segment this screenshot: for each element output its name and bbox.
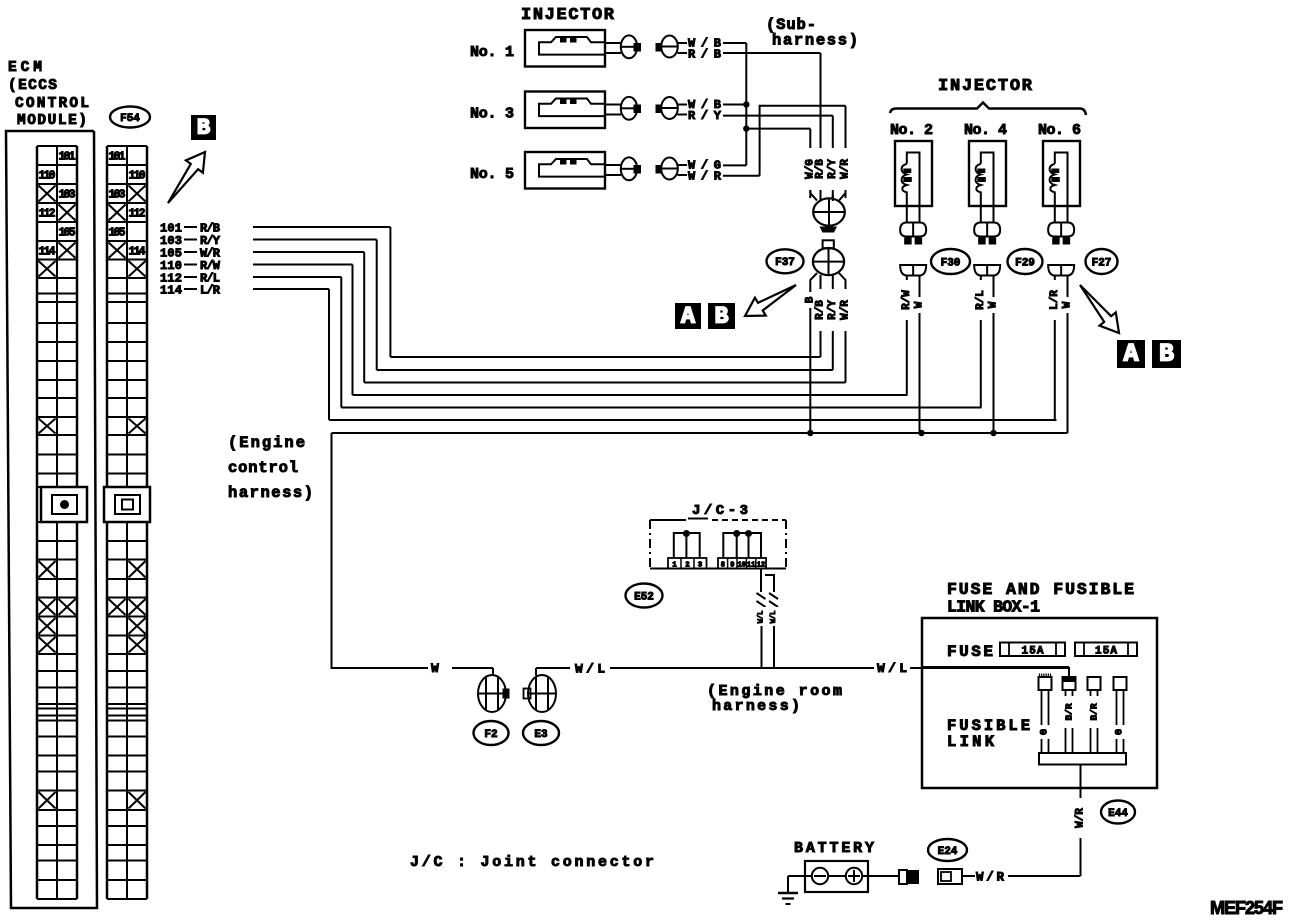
svg-text:MEF254F: MEF254F xyxy=(1210,898,1283,918)
svg-text:R/B: R/B xyxy=(815,300,827,320)
svg-text:101: 101 xyxy=(59,151,76,164)
svg-text:LINK BOX-1: LINK BOX-1 xyxy=(947,598,1040,617)
svg-text:2: 2 xyxy=(685,562,690,570)
svg-text:R/B: R/B xyxy=(688,48,721,62)
svg-text:FUSE AND FUSIBLE: FUSE AND FUSIBLE xyxy=(947,580,1134,599)
svg-text:110: 110 xyxy=(129,170,146,183)
svg-text:J/C : Joint connector: J/C : Joint connector xyxy=(410,854,654,871)
svg-text:W: W xyxy=(431,661,439,676)
svg-text:3: 3 xyxy=(698,562,703,570)
svg-text:R/Y: R/Y xyxy=(688,109,722,123)
svg-text:9: 9 xyxy=(730,562,734,570)
svg-text:(ECCS: (ECCS xyxy=(8,78,57,94)
svg-text:W: W xyxy=(1062,301,1074,308)
svg-text:L/R: L/R xyxy=(200,284,221,298)
svg-text:12: 12 xyxy=(757,562,765,570)
svg-text:BATTERY: BATTERY xyxy=(794,840,874,857)
svg-text:114: 114 xyxy=(39,245,56,258)
svg-text:W/L: W/L xyxy=(770,611,778,624)
svg-text:W/L: W/L xyxy=(877,661,907,676)
svg-text:114: 114 xyxy=(160,284,182,298)
svg-text:control: control xyxy=(228,459,298,477)
svg-text:W/R: W/R xyxy=(840,300,852,320)
svg-text:W/R: W/R xyxy=(688,170,722,184)
svg-text:8: 8 xyxy=(721,562,725,570)
svg-text:W/L: W/L xyxy=(575,662,605,677)
svg-text:B/R: B/R xyxy=(1064,703,1075,720)
svg-text:W: W xyxy=(914,301,926,308)
svg-text:105: 105 xyxy=(59,227,76,240)
svg-text:11: 11 xyxy=(747,562,755,570)
svg-text:B: B xyxy=(197,116,210,141)
svg-text:R/B: R/B xyxy=(815,159,827,179)
svg-text:103: 103 xyxy=(59,189,76,202)
svg-text:101: 101 xyxy=(109,151,126,164)
svg-text:E3: E3 xyxy=(534,729,548,741)
svg-text:W: W xyxy=(988,301,1000,308)
svg-text:F30: F30 xyxy=(941,257,961,269)
svg-text:No. 4: No. 4 xyxy=(964,122,1007,139)
svg-text:R/L: R/L xyxy=(975,290,987,310)
svg-text:F27: F27 xyxy=(1092,257,1112,269)
svg-text:112: 112 xyxy=(129,208,146,221)
svg-text:F37: F37 xyxy=(775,257,795,269)
svg-text:114: 114 xyxy=(129,245,146,258)
svg-text:1: 1 xyxy=(672,562,677,570)
svg-text:W/R: W/R xyxy=(1075,808,1087,828)
svg-text:G: G xyxy=(1040,729,1051,735)
svg-text:CONTROL: CONTROL xyxy=(15,96,89,112)
svg-text:INJECTOR: INJECTOR xyxy=(521,6,615,25)
svg-text:W/R: W/R xyxy=(840,159,852,179)
svg-text:E24: E24 xyxy=(938,846,958,858)
svg-text:No. 3: No. 3 xyxy=(470,106,514,123)
svg-text:10: 10 xyxy=(737,562,745,570)
svg-text:MODULE): MODULE) xyxy=(17,113,87,129)
svg-text:No. 1: No. 1 xyxy=(470,44,514,61)
svg-text:103: 103 xyxy=(109,189,126,202)
svg-text:harness): harness) xyxy=(228,484,313,502)
svg-text:W/R: W/R xyxy=(976,871,1004,885)
svg-text:L/R: L/R xyxy=(1049,290,1061,310)
svg-text:G: G xyxy=(1115,729,1126,735)
svg-text:A: A xyxy=(1124,341,1139,369)
svg-text:INJECTOR: INJECTOR xyxy=(938,77,1033,96)
svg-text:105: 105 xyxy=(109,227,126,240)
svg-text:F54: F54 xyxy=(120,113,140,125)
svg-text:No. 6: No. 6 xyxy=(1038,122,1081,139)
svg-text:B/R: B/R xyxy=(1089,703,1100,720)
svg-text:J/C-3: J/C-3 xyxy=(692,503,748,519)
svg-text:No. 5: No. 5 xyxy=(470,166,514,183)
svg-text:harness): harness) xyxy=(772,32,858,50)
svg-text:B: B xyxy=(1159,341,1174,369)
svg-text:ECM: ECM xyxy=(8,60,42,76)
svg-text:R/W: R/W xyxy=(901,290,913,310)
svg-text:15A: 15A xyxy=(1095,646,1117,658)
svg-text:A: A xyxy=(681,304,695,330)
svg-text:E44: E44 xyxy=(1108,808,1128,820)
svg-text:E52: E52 xyxy=(634,591,654,603)
svg-text:R/Y: R/Y xyxy=(827,159,839,179)
svg-text:W/L: W/L xyxy=(758,611,766,624)
svg-text:R/Y: R/Y xyxy=(827,300,839,320)
svg-text:F29: F29 xyxy=(1015,257,1035,269)
svg-text:B: B xyxy=(715,304,729,330)
svg-text:F2: F2 xyxy=(484,729,497,741)
svg-text:112: 112 xyxy=(39,208,56,221)
svg-text:110: 110 xyxy=(39,170,56,183)
svg-text:15A: 15A xyxy=(1022,646,1044,658)
svg-text:No. 2: No. 2 xyxy=(890,122,933,139)
svg-text:(Engine: (Engine xyxy=(228,434,305,452)
